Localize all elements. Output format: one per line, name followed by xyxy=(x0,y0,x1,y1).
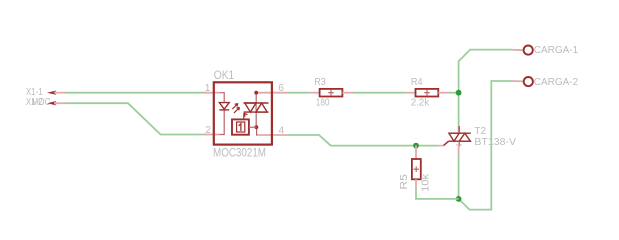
connector pin X1-1 arrow xyxy=(47,91,57,95)
OK1 internal LED diode xyxy=(219,103,229,110)
OK1 internal triac top bar xyxy=(244,102,269,104)
svg-text:180: 180 xyxy=(316,98,330,109)
junction node R5 top xyxy=(413,143,419,149)
wire OK1 pin4 to R5/gate node xyxy=(288,135,416,146)
OK1 driver 1-box outer xyxy=(232,119,249,134)
resistor R4 xyxy=(405,92,416,94)
OK1 gate arrow to 1-box xyxy=(244,113,248,119)
triac T2 xyxy=(449,126,471,147)
svg-text:R4: R4 xyxy=(411,77,423,88)
svg-text:R3: R3 xyxy=(314,77,326,88)
wire X1-2 to OK1 pin2 xyxy=(66,103,205,134)
svg-text:1: 1 xyxy=(205,83,211,94)
connector CARGA-1 lead xyxy=(512,49,524,51)
wire R4 to node xyxy=(449,92,459,94)
triac T2 top lead xyxy=(458,125,460,133)
pin 6 lead xyxy=(256,92,288,94)
T2 origin cross xyxy=(456,142,462,148)
OK1 light arrow 2 xyxy=(234,107,240,113)
pin 2 lead xyxy=(204,134,220,136)
svg-text:4: 4 xyxy=(279,125,285,136)
wire OK1 pin6 to R3 xyxy=(288,92,308,94)
OK1 1-box lead to dot xyxy=(249,126,257,128)
connector CARGA-2 circle xyxy=(524,77,533,86)
svg-text:CARGA-2: CARGA-2 xyxy=(534,77,579,88)
svg-text:6: 6 xyxy=(278,83,284,94)
connector CARGA-1 circle xyxy=(524,46,533,55)
OK1 internal detector vertical wiring xyxy=(256,93,258,135)
resistor R5 top lead xyxy=(415,146,417,159)
wire main vertical CARGA-1 branch xyxy=(459,50,513,125)
svg-text:2.2k: 2.2k xyxy=(411,98,429,109)
OK1 internal triac right triangle xyxy=(256,103,267,112)
svg-text:BT138-V: BT138-V xyxy=(474,137,516,148)
resistor R3 xyxy=(308,92,319,94)
triac T2 bottom lead xyxy=(458,147,460,155)
wire node to T2 gate xyxy=(416,145,438,147)
svg-text:OK1: OK1 xyxy=(214,69,235,82)
OK1 junction dot gate xyxy=(255,125,259,129)
wire R5 bottom to node xyxy=(416,190,459,199)
svg-text:CARGA-1: CARGA-1 xyxy=(534,45,579,56)
wire T2 bottom to node xyxy=(458,155,460,199)
svg-text:MOC: MOC xyxy=(32,97,51,108)
svg-text:T2: T2 xyxy=(474,126,486,137)
pin 4 lead xyxy=(258,134,288,136)
triac T2 gate lead xyxy=(438,145,444,147)
svg-text:2: 2 xyxy=(205,125,211,136)
OK1 light arrow 1 xyxy=(232,104,238,110)
wire CARGA-2 branch xyxy=(459,81,513,210)
OK1 driver 1-box inner rect xyxy=(237,122,245,132)
OK1 junction dot pin6 xyxy=(254,91,258,95)
connector CARGA-2 lead xyxy=(512,80,524,82)
junction node bottom xyxy=(456,196,462,202)
resistor R5 body xyxy=(412,159,421,179)
junction node R4/vertical xyxy=(456,90,462,96)
R5 bottom lead xyxy=(415,179,417,189)
svg-text:R5: R5 xyxy=(399,173,410,189)
optocoupler OK1 box xyxy=(214,82,272,144)
svg-text:MOC3021M: MOC3021M xyxy=(213,147,266,160)
OK1 internal triac bottom bar xyxy=(244,111,269,113)
OK1 internal LED branch wiring xyxy=(220,93,225,135)
svg-text:10k: 10k xyxy=(421,174,432,192)
wire X1-1 to OK1 pin1 xyxy=(66,92,205,94)
OK1 driver 1-box digit xyxy=(239,124,241,131)
wire R3 to R4 xyxy=(353,92,405,94)
pin 1 lead xyxy=(204,92,220,94)
connector pin X1-2 arrow xyxy=(47,101,57,105)
OK1 internal triac left triangle xyxy=(245,103,256,112)
